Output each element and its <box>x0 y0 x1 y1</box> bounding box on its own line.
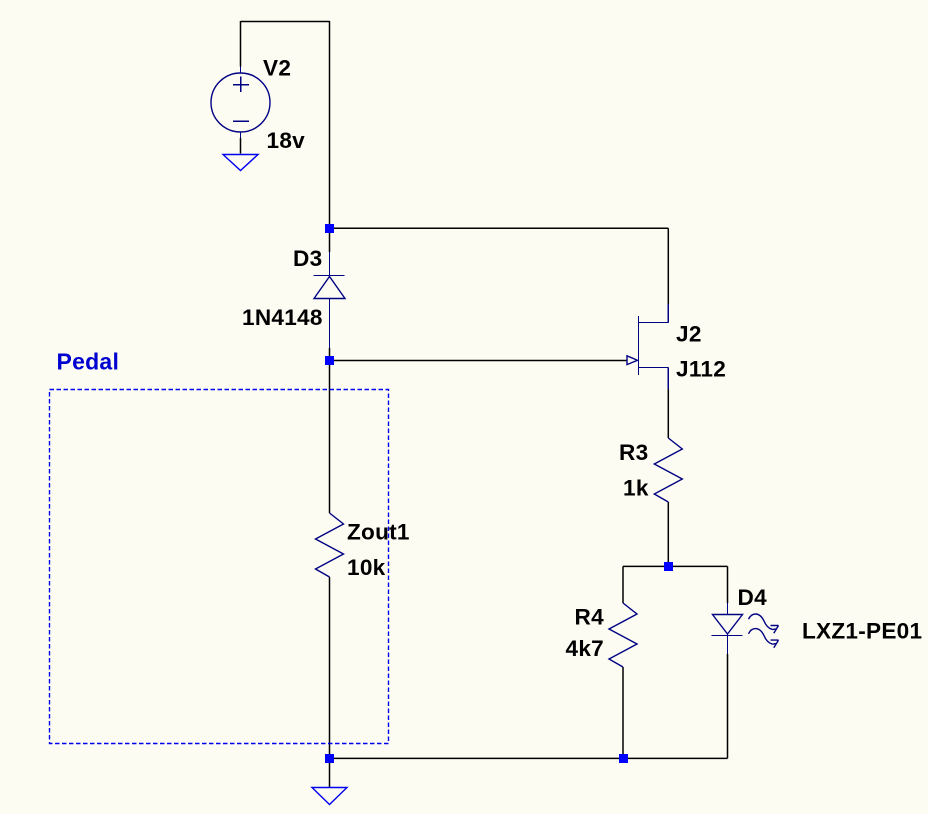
svg-text:D4: D4 <box>738 585 768 610</box>
svg-text:Pedal: Pedal <box>57 348 120 374</box>
svg-text:4k7: 4k7 <box>566 636 604 661</box>
svg-text:Zout1: Zout1 <box>347 520 410 545</box>
svg-text:1N4148: 1N4148 <box>242 305 323 330</box>
svg-text:R4: R4 <box>575 605 605 630</box>
svg-text:J2: J2 <box>676 322 702 347</box>
svg-text:1k: 1k <box>623 476 649 501</box>
svg-text:V2: V2 <box>263 56 291 81</box>
svg-text:18v: 18v <box>267 128 306 153</box>
svg-text:J112: J112 <box>676 357 726 382</box>
svg-text:D3: D3 <box>293 246 322 271</box>
svg-text:LXZ1-PE01: LXZ1-PE01 <box>802 619 922 644</box>
svg-text:10k: 10k <box>347 555 386 580</box>
svg-text:R3: R3 <box>619 440 648 465</box>
